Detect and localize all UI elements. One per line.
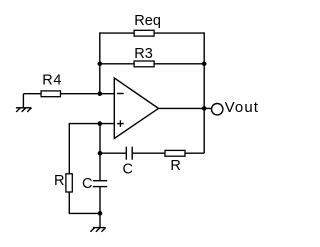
node junction at R3 right	[202, 62, 207, 67]
node junction at R3 left	[98, 62, 103, 67]
wire output	[159, 107, 212, 109]
node junction inverting input	[98, 91, 103, 96]
terminal Vout	[212, 104, 223, 115]
ground G2	[90, 213, 105, 231]
node junction non-inverting input	[98, 121, 103, 126]
wire resistor R to output net	[185, 152, 204, 154]
wire right vertical (output net)	[203, 32, 205, 153]
resistor R (feedback)	[165, 150, 185, 156]
svg-text:R4: R4	[42, 73, 62, 89]
wire left vertical (inverting net)	[99, 32, 101, 93]
node junction bottom	[98, 211, 103, 216]
capacitor C (vertical)	[93, 181, 107, 187]
wire R4 right segment	[61, 93, 115, 95]
svg-text:R: R	[170, 158, 180, 174]
wire center vertical above capacitor C	[99, 123, 101, 181]
resistor R (vertical)	[66, 174, 72, 192]
resistor Req	[134, 30, 154, 36]
wire below C to bottom node	[99, 187, 101, 214]
wire feedback tap to capacitor C	[100, 152, 126, 154]
wire R3 left segment	[100, 63, 134, 65]
wire non-inverting input	[69, 123, 114, 125]
node junction feedback tap	[98, 151, 103, 156]
wire R3 right segment	[154, 63, 204, 65]
wire top loop left segment	[100, 32, 134, 34]
resistor R3	[134, 61, 154, 67]
svg-text:C: C	[82, 176, 92, 192]
svg-text:C: C	[123, 162, 133, 178]
svg-text:Req: Req	[134, 13, 161, 29]
resistor R4	[41, 91, 60, 97]
wire R4 left segment	[23, 93, 41, 95]
wire top loop right segment	[154, 32, 204, 34]
wire capacitor C to resistor R	[132, 152, 165, 154]
svg-text:Vout: Vout	[225, 99, 259, 116]
svg-text:R3: R3	[134, 46, 153, 62]
svg-text:R: R	[54, 173, 64, 189]
wire left branch vertical down to R	[68, 123, 70, 174]
capacitor C (feedback)	[126, 147, 132, 160]
node junction output	[202, 106, 207, 111]
op-amp U1	[114, 78, 158, 138]
wire below R to bottom node	[69, 192, 100, 213]
ground G1	[16, 94, 32, 112]
